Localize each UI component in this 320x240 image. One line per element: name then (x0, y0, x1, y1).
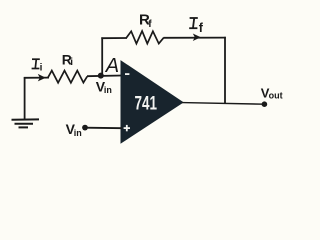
ground (12, 119, 40, 127)
wire feedback top left segment (101, 37, 127, 39)
wire feedback vertical from node A (101, 37, 103, 75)
wire feedback top right segment (164, 37, 226, 39)
svg-text:i: i (70, 57, 73, 68)
svg-text:in: in (104, 85, 112, 95)
op-amp minus pin (125, 73, 129, 75)
wire feedback right vertical (224, 37, 226, 104)
node A (98, 73, 104, 79)
wire input horizontal (24, 77, 49, 79)
svg-text:in: in (74, 128, 82, 138)
node vout terminal (262, 101, 268, 107)
current arrow Ii (38, 74, 46, 82)
op-amp plus pin (124, 125, 130, 131)
svg-text:i: i (40, 62, 43, 73)
svg-text:out: out (269, 91, 283, 101)
current arrow If (193, 34, 201, 42)
resistor Rf (126, 31, 163, 44)
svg-text:741: 741 (135, 93, 158, 114)
wire Ri to op-amp minus input (87, 75, 122, 78)
op-amp U1 741 (121, 61, 183, 143)
resistor Ri (48, 71, 87, 83)
label If (189, 18, 198, 28)
wire output (182, 103, 265, 105)
svg-text:A: A (105, 55, 119, 77)
wire op-amp plus input (85, 127, 122, 130)
node vin plus terminal (82, 125, 88, 131)
label Ii (32, 59, 40, 68)
wire ground-to-corner vertical (24, 77, 26, 119)
